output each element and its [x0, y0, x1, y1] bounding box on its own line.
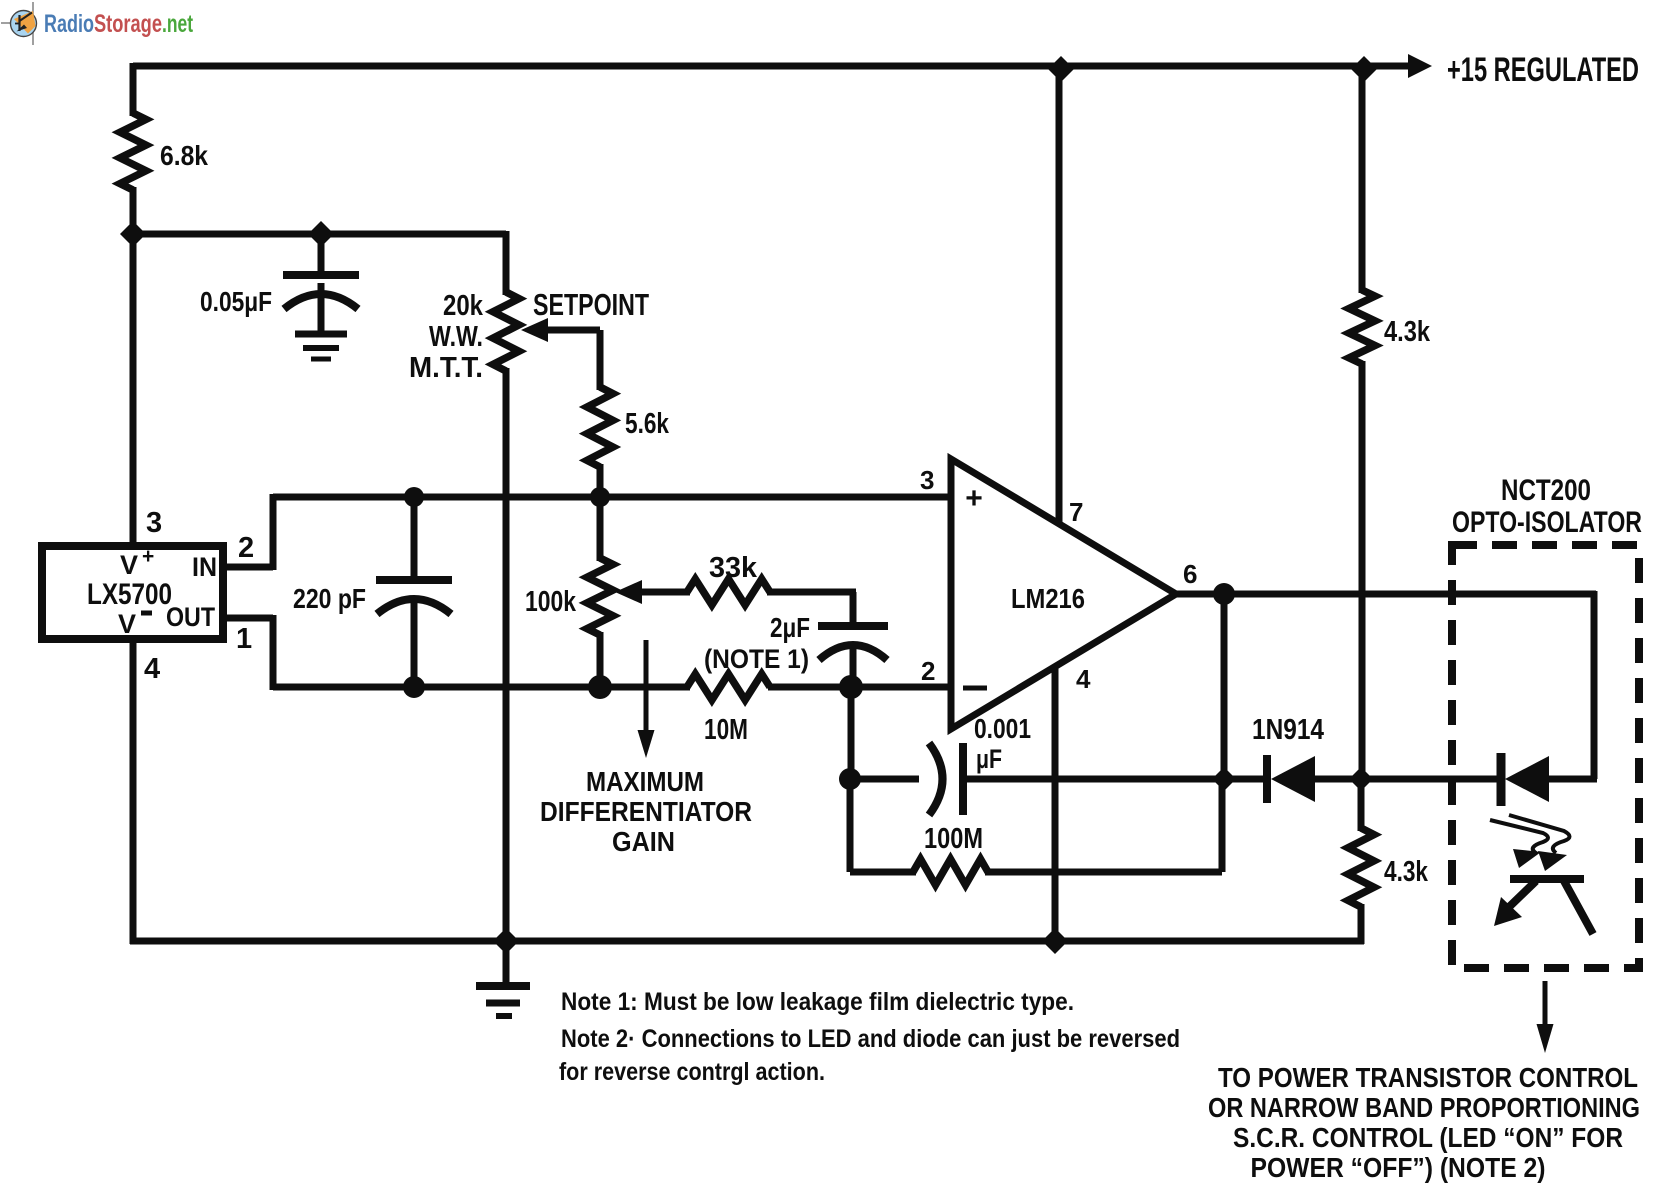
wire 100M bottom left	[850, 869, 916, 876]
resistor R7 100M	[913, 859, 988, 885]
label 4.3k upper	[1384, 316, 1431, 348]
arrow to power transistor control	[1537, 981, 1554, 1053]
wire non-inverting input net y495	[273, 494, 951, 501]
svg-text:MAXIMUM: MAXIMUM	[586, 766, 704, 797]
svg-text:33k: 33k	[709, 552, 758, 584]
wire 1N914 to 4.3k node	[1311, 776, 1364, 783]
label M.T.T.	[409, 352, 483, 384]
wire left vertical upper	[130, 63, 137, 116]
wire LX5700 pin4 down	[130, 637, 137, 944]
potentiometer R4 100k body	[587, 558, 613, 635]
svg-text:10M: 10M	[704, 714, 748, 746]
label 10M	[704, 714, 748, 746]
node junction rail pin7	[1048, 56, 1074, 82]
label MAXIMUM	[586, 766, 704, 797]
wire 100M left leg	[847, 776, 854, 872]
node junction left rail y231	[120, 221, 146, 247]
svg-text:2μF: 2μF	[770, 612, 810, 643]
svg-text:+: +	[142, 545, 154, 568]
wire 33k to 2uF	[767, 592, 856, 628]
label pin 7 op-amp	[1069, 497, 1083, 527]
label NCT200	[1501, 474, 1591, 507]
wire 4.3k lower top	[1358, 776, 1365, 831]
label LM216	[1011, 583, 1085, 614]
wire inverting input net y687 left	[273, 684, 690, 691]
wire opto feed down	[1591, 591, 1598, 779]
label to power transistor control line1	[1218, 1062, 1638, 1093]
label line2	[1208, 1092, 1640, 1123]
site logo icon	[1, 2, 37, 45]
label 6.8k	[160, 140, 208, 171]
node junction 220pF bottom	[403, 676, 425, 698]
resistor R1 6.8k	[120, 113, 146, 190]
svg-text:1N914: 1N914	[1252, 714, 1324, 746]
label line3	[1233, 1122, 1623, 1153]
svg-text:μF: μF	[976, 744, 1002, 774]
wire 4.3k lower bottom	[1358, 904, 1365, 944]
svg-text:for reverse contrgl action.: for reverse contrgl action.	[559, 1058, 825, 1086]
resistor R3 5.6k	[587, 387, 613, 467]
wire inverting input net y687 right	[768, 684, 951, 691]
sensor U1 LX5700 box	[42, 546, 223, 639]
node junction 2uF bottom	[839, 675, 863, 699]
label 0.001	[974, 713, 1031, 744]
label pin 6 op-amp	[1183, 559, 1197, 589]
capacitor C1 0.05uF	[283, 275, 359, 309]
svg-text:6.8k: 6.8k	[160, 140, 208, 171]
node junction 100k bottom	[588, 675, 612, 699]
opto light arrow left	[1490, 820, 1548, 868]
label 220 pF	[293, 583, 366, 614]
wire 100M right leg	[1219, 776, 1226, 872]
svg-text:4: 4	[144, 653, 160, 685]
svg-text:Radio: Radio	[44, 10, 94, 38]
svg-text:OR NARROW BAND PROPORTIONING: OR NARROW BAND PROPORTIONING	[1208, 1092, 1640, 1123]
label NOTE 1	[704, 644, 809, 674]
node junction y779 output	[1212, 767, 1236, 791]
node junction ground rail pin4	[1042, 928, 1068, 954]
svg-text:Note 2· Connections to LED an: Note 2· Connections to LED and diode can…	[561, 1025, 1180, 1053]
wire LX5700 pin2 stub	[222, 494, 273, 570]
wire op-amp pin7 to rail	[1056, 66, 1063, 524]
transistor Q1 opto output	[1494, 879, 1593, 934]
label 33k	[709, 552, 758, 584]
svg-text:100k: 100k	[525, 586, 577, 618]
label pin 2 op-amp	[921, 656, 935, 686]
svg-text:OPTO-ISOLATOR: OPTO-ISOLATOR	[1452, 506, 1642, 539]
label pin 4 op-amp	[1076, 664, 1091, 694]
label OPTO-ISOLATOR	[1452, 506, 1642, 539]
label 100k	[525, 586, 577, 618]
node junction output	[1213, 583, 1235, 605]
label 4.3k lower	[1384, 856, 1429, 888]
opto-isolator U3 NCT200 dashed box	[1452, 545, 1639, 968]
label 2uF	[770, 612, 810, 643]
svg-text:3: 3	[146, 507, 162, 539]
resistor R9 4.3k lower	[1348, 828, 1374, 907]
wire LED to corner	[1545, 776, 1597, 783]
label GAIN	[612, 826, 675, 857]
wire 100k top	[597, 495, 604, 561]
svg-text:100M: 100M	[924, 823, 983, 855]
label DIFFERENTIATOR	[540, 796, 752, 827]
label 0.05uF	[200, 286, 272, 317]
LED D2 opto emitter	[1501, 753, 1549, 806]
wire output down to feedback	[1221, 594, 1228, 782]
wire 100M bottom right	[985, 869, 1222, 876]
svg-text:IN: IN	[192, 552, 217, 582]
arrow maximum differentiator gain	[638, 640, 655, 758]
node junction 4.3k tap	[1349, 767, 1373, 791]
resistor R5 33k	[687, 579, 770, 605]
ground symbol under 0.05uF	[295, 334, 347, 359]
note 2 text	[561, 1025, 1180, 1053]
svg-text:3: 3	[920, 465, 934, 495]
capacitor C2 220pF	[376, 580, 452, 614]
resistor R6 10M	[687, 674, 770, 700]
wire 5.6k bottom	[597, 464, 604, 500]
node junction 220pF top	[404, 487, 424, 507]
label LX5700 V-	[118, 609, 152, 639]
wire 0.001 cap to output node	[963, 776, 1266, 783]
svg-text:2: 2	[238, 532, 254, 564]
wire 0.05uF to ground	[318, 283, 325, 336]
svg-text:SETPOINT: SETPOINT	[533, 287, 649, 322]
wire 20k top	[503, 231, 510, 295]
wire 20k bottom to ground rail	[503, 368, 510, 941]
capacitor C3 2uF	[818, 626, 888, 660]
wire 2uF bottom stem	[850, 646, 857, 690]
wire op-amp pin4 to ground rail	[1052, 667, 1059, 941]
wire horizontal y231	[133, 231, 506, 238]
label op-amp plus	[965, 482, 983, 515]
node junction rail 4.3k	[1351, 56, 1377, 82]
wire y779 to 0.001 cap	[850, 776, 919, 783]
opto light arrow right	[1509, 815, 1570, 871]
svg-text:0.001: 0.001	[974, 713, 1031, 744]
svg-text:NCT200: NCT200	[1501, 474, 1591, 507]
note 1 text	[561, 988, 1074, 1016]
svg-text:OUT: OUT	[166, 602, 215, 632]
svg-text:GAIN: GAIN	[612, 826, 675, 857]
wire LX5700 pin1 stub	[222, 615, 273, 690]
wire left vertical to LX5700 pin3	[130, 187, 137, 548]
wire +15 supply rail	[133, 63, 1408, 70]
label SETPOINT	[533, 287, 649, 322]
wire ground rail y941	[130, 938, 1364, 945]
label op-amp minus	[963, 686, 987, 691]
ground symbol main	[476, 941, 530, 1016]
label pin 4	[144, 653, 160, 685]
label LX5700	[87, 578, 172, 611]
label +15 REGULATED	[1447, 51, 1639, 89]
resistor R8 4.3k upper	[1349, 290, 1375, 364]
capacitor C4 0.001uF	[929, 743, 963, 815]
wire 4.3k upper top	[1359, 66, 1366, 293]
label LX5700 OUT	[166, 602, 215, 632]
svg-text:1: 1	[236, 623, 252, 655]
svg-text:V: V	[120, 550, 138, 580]
label 5.6k	[625, 408, 670, 440]
svg-text:4: 4	[1076, 664, 1091, 694]
label 1N914	[1252, 714, 1324, 746]
svg-text:M.T.T.: M.T.T.	[409, 352, 483, 384]
wire 0.05uF stem	[318, 234, 325, 277]
svg-text:Note 1: Must be low leakage f: Note 1: Must be low leakage film dielect…	[561, 988, 1074, 1016]
node junction 0.05uF tap	[308, 221, 334, 247]
arrow +15 regulated output	[1408, 54, 1432, 78]
label 20k	[443, 290, 484, 322]
label pin 1	[236, 623, 252, 655]
potentiometer R2 wiper arrow	[521, 318, 600, 390]
wire 220pF top stem	[411, 495, 418, 582]
svg-text:Storage: Storage	[94, 10, 162, 38]
svg-text:220 pF: 220 pF	[293, 583, 366, 614]
wire 4.3k upper bottom	[1359, 361, 1366, 779]
label 100M	[924, 823, 983, 855]
label W.W.	[429, 321, 483, 353]
wire y779 into opto box	[1361, 776, 1499, 783]
node junction inverting feedback	[839, 768, 861, 790]
svg-text:+: +	[965, 482, 983, 515]
wire 220pF bottom stem	[411, 600, 418, 690]
label LX5700 V+	[120, 545, 154, 580]
node junction ground rail pot	[493, 928, 519, 954]
label pin 3	[146, 507, 162, 539]
label 0.001 uF unit	[976, 744, 1002, 774]
svg-text:4.3k: 4.3k	[1384, 856, 1429, 888]
svg-text:LM216: LM216	[1011, 583, 1085, 614]
svg-text:W.W.: W.W.	[429, 321, 483, 353]
svg-text:TO POWER TRANSISTOR CONTROL: TO POWER TRANSISTOR CONTROL	[1218, 1062, 1638, 1093]
svg-text:LX5700: LX5700	[87, 578, 172, 611]
note 2 text line2	[559, 1058, 825, 1086]
svg-text:20k: 20k	[443, 290, 484, 322]
svg-text:V: V	[118, 609, 136, 639]
svg-text:S.C.R. CONTROL (LED “ON” FOR: S.C.R. CONTROL (LED “ON” FOR	[1233, 1122, 1623, 1153]
potentiometer R4 wiper arrow	[615, 580, 690, 604]
label LX5700 IN	[192, 552, 217, 582]
wire 100k bottom	[597, 632, 604, 690]
svg-text:+15 REGULATED: +15 REGULATED	[1447, 51, 1639, 89]
svg-text:2: 2	[921, 656, 935, 686]
wire 2uF node down	[848, 684, 855, 779]
wire op-amp output y594	[1172, 591, 1596, 598]
diode D1 1N914	[1267, 755, 1315, 803]
svg-text:0.05μF: 0.05μF	[200, 286, 272, 317]
svg-text:DIFFERENTIATOR: DIFFERENTIATOR	[540, 796, 752, 827]
label pin 2	[238, 532, 254, 564]
svg-text:7: 7	[1069, 497, 1083, 527]
svg-text:(NOTE 1): (NOTE 1)	[704, 644, 809, 674]
label pin 3 op-amp	[920, 465, 934, 495]
site logo text RadioStorage.net	[44, 10, 193, 38]
svg-text:6: 6	[1183, 559, 1197, 589]
svg-text:5.6k: 5.6k	[625, 408, 670, 440]
label line4	[1251, 1152, 1546, 1183]
svg-text:.net: .net	[162, 10, 193, 38]
svg-text:4.3k: 4.3k	[1384, 316, 1431, 348]
svg-text:POWER “OFF”) (NOTE 2): POWER “OFF”) (NOTE 2)	[1251, 1152, 1546, 1183]
potentiometer R2 20k body	[493, 292, 519, 371]
node junction 5.6k-100k	[590, 487, 610, 507]
op-amp U2 LM216	[951, 459, 1176, 729]
